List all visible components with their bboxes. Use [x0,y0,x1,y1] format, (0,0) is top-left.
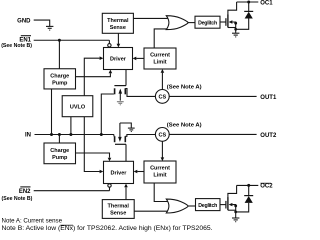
wire EN1 horizontal [34,39,110,41]
node Q3 body-source junction [234,22,237,25]
svg-text:Current: Current [150,53,170,59]
note A text [2,218,63,224]
svg-text:IN: IN [25,133,31,139]
node IN junction to UVLO [69,133,72,136]
note B text [2,226,213,232]
svg-text:(See Note A): (See Note A) [167,122,202,128]
svg-text:Deglitch: Deglitch [198,203,217,209]
wire Q1 drain to IN rail [101,94,114,135]
wire Driver 2 gate drive [125,144,127,161]
svg-text:Charge: Charge [50,74,69,80]
wire OUT1 [169,95,256,97]
svg-text:GND: GND [17,18,31,24]
wire OC2 rail [237,184,259,186]
pin label IN [25,133,31,139]
svg-text:Pump: Pump [52,155,68,161]
svg-text:(See Note A): (See Note A) [167,84,202,90]
transistor Q3 channel bar [227,15,229,28]
wire OUT2 [169,133,256,135]
block U8 Driver (channel 2) [104,161,134,183]
inversion bubble on Driver 2 [108,184,111,187]
wire EN1 to Charge Pump 1 [58,40,60,69]
OR gate 1 [166,16,188,30]
node Q4 source-diode junction [234,211,237,214]
wire Current Limit 2 to OR gate 2 [154,183,171,202]
wire Q1 source to OUT1 [125,89,155,97]
current sense CS2 circle [155,127,169,141]
pin label OUT2 [260,133,277,139]
svg-text:Limit: Limit [153,60,166,66]
wire UVLO to Driver 1 (arrow right) [84,58,99,95]
label (See Note A) channel 1 [167,84,202,90]
transistor Q3 body arrow [229,20,233,23]
svg-text:Deglitch: Deglitch [198,20,217,26]
svg-text:Thermal: Thermal [107,18,129,24]
wire Driver 1 gate drive [125,70,127,86]
wire IN to Charge Pump 2 [58,135,60,144]
svg-text:OC1: OC1 [260,0,273,6]
wire Q4 source to ground [235,212,237,218]
wire Charge Pump 2 to Driver 2 (arrow down) [76,153,110,158]
wire IN to UVLO [70,117,72,135]
transistor Q2 body arrow [119,123,121,140]
transistor Q1 body arrow [119,90,121,101]
svg-text:Sense: Sense [110,211,126,217]
pin label OUT1 [260,95,277,101]
wire GND pin [34,20,50,26]
wire Thermal Sense 2 to Driver 2 (arrow up) [125,187,127,199]
wire Deglitch 1 to Q3 gate [220,21,226,23]
wire Current Limit 2 to Driver 2 (arrow left) [137,171,144,173]
pin label EN1 (active low, overbar) [19,38,31,44]
svg-text:Note A: Current sense: Note A: Current sense [2,218,63,224]
block U6 UVLO [62,96,93,117]
svg-text:Note B: Active low (ENx) for T: Note B: Active low (ENx) for TPS2062. Ac… [2,226,213,232]
svg-text:CS: CS [158,95,166,101]
svg-text:UVLO: UVLO [70,104,86,110]
overbar of ENx in note B [60,224,73,226]
wire Thermal Sense 2 to OR gate 2 [134,210,171,212]
wire IN to Charge Pump 1 [51,89,53,135]
node Q3 source-diode junction [234,28,237,31]
transistor Q4 channel bar [227,197,229,210]
overbar of EN2 [20,186,30,188]
svg-text:(See Note B): (See Note B) [2,196,33,202]
wire OR2 to Deglitch 2 [188,205,195,207]
transistor Q3 open-drain OC1 FET: gate bar [225,18,227,26]
wire UVLO to Driver 2 (arrow right) [84,117,99,172]
overbar of OC2 [260,182,271,184]
wire Thermal Sense 1 to Driver 1 (arrow down) [117,33,119,44]
wire Current Limit 1 to OR gate 1 [154,29,171,48]
svg-text:Driver: Driver [111,171,128,177]
node Q4 body-source junction [234,205,237,208]
block U1 Thermal Sense (channel 1) [102,13,133,33]
block U2 Driver (channel 1) [104,48,133,70]
block U9 Current Limit (channel 2) [144,161,176,183]
block U7 Charge Pump (channel 2) [44,143,76,164]
block U5 Deglitch (channel 1) [195,16,220,28]
svg-text:CS: CS [158,133,166,139]
wire Charge Pump 1 to Driver 1 (arrow up) [76,73,111,77]
svg-text:Charge: Charge [50,148,69,154]
wire Q3 source to ground [235,29,237,33]
wire Thermal Sense 1 to OR gate 1 [133,17,171,19]
substrate ground of Q1 [117,102,124,105]
current sense CS1 circle [155,90,169,104]
wire CS2 to Current Limit 2 (arrow down) [161,141,163,157]
wire Q3 source lead [228,27,236,29]
label (See Note A) channel 2 [167,122,202,128]
pin label OC2 [260,184,273,190]
svg-text:OUT1: OUT1 [260,95,277,101]
svg-text:Thermal: Thermal [107,204,129,210]
label (See Note B) channel 1 [1,43,32,49]
svg-text:Sense: Sense [110,25,126,31]
transistor Q1 power MOSFET channel 1: gate bar [114,85,126,87]
wire Q4 drain to OC2 rail [228,185,237,197]
svg-text:EN2: EN2 [19,189,31,195]
OR gate 2 [166,199,188,213]
node IN junction to Charge Pump 2 [58,133,61,136]
block U10 Thermal Sense (channel 2) [102,200,134,219]
node OC1 diode tap [247,1,250,4]
block U4 Current Limit (channel 1) [144,48,176,69]
wire CS1 to Current Limit 1 (arrow up) [161,73,163,90]
node IN junction to Charge Pump 1 [50,133,53,136]
wire Q2 drain jog from IN rail [113,135,115,137]
transistor Q4 open-drain OC2 FET: gate bar [225,201,227,209]
wire EN1 to Driver 1 bubble [108,40,110,43]
wire Q2 source to OUT2 [125,135,155,137]
svg-text:OUT2: OUT2 [260,133,277,139]
block U3 Charge Pump (channel 1) [44,69,76,89]
wire OR1 to Deglitch 1 [188,22,195,24]
ground symbol at GND pin [46,26,53,30]
svg-text:Driver: Driver [110,57,127,63]
svg-text:Pump: Pump [52,81,68,87]
overbar of EN1 [21,35,31,37]
wire EN2 horizontal [34,190,110,192]
transistor Q2 power MOSFET channel 2: gate bar [115,143,126,145]
transistor Q2 source/drain contact bars [114,136,116,142]
transistor Q4 body arrow [229,203,233,206]
diode D2 clamp on OC2 [248,185,250,195]
ground symbol at Q4 source [232,218,239,222]
ground symbol at Q3 source [232,33,239,37]
svg-text:Limit: Limit [153,173,166,179]
wire Deglitch 2 to Q4 gate [220,204,226,206]
node EN1 branch junction [58,39,61,42]
wire IN rail [35,134,114,136]
node IN junction to Q1 drain [100,133,103,136]
block U11 Deglitch (channel 2) [196,199,221,211]
wire Q4 source lead [228,209,236,211]
substrate ground of Q2 [120,123,131,128]
pin label OC1 [260,0,273,6]
pin label GND [17,18,31,24]
diode D1 clamp on OC1 [248,2,250,11]
svg-text:(See Note B): (See Note B) [1,43,32,49]
wire Current Limit 1 to Driver 1 (arrow left) [136,57,144,59]
svg-text:Current: Current [150,166,170,172]
inversion bubble on Driver 1 [108,44,111,47]
transistor Q1 source/drain contact bars [114,88,116,94]
pin label EN2 (overbar) [19,189,31,195]
wire EN2 to Driver 2 bubble [109,187,111,191]
wire Q3 drain to OC1 rail [228,2,237,15]
svg-text:OC2: OC2 [260,184,273,190]
wire OC1 rail [237,1,259,3]
node OC2 diode tap [247,184,250,187]
label (See Note B) channel 2 [2,196,33,202]
